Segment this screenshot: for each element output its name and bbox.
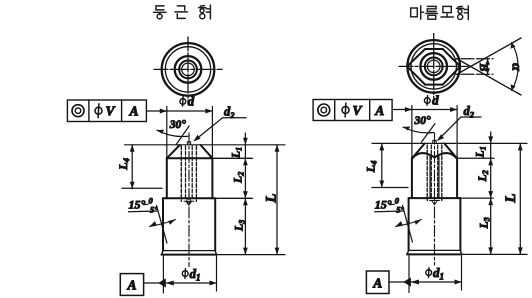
top view round pin: pin circle d <box>165 47 210 92</box>
top edge line right (with extensions) <box>372 142 527 144</box>
thread bottom cone right <box>430 201 440 205</box>
svg-text:30°: 30° <box>414 115 432 127</box>
svg-text:A: A <box>126 278 136 293</box>
phi-d dimension line left <box>160 110 213 112</box>
svg-text:A: A <box>372 276 382 291</box>
svg-text:15°: 15° <box>375 198 392 212</box>
15deg underline left <box>129 210 159 213</box>
leader from frame left <box>146 110 166 112</box>
L4 dimension left <box>131 145 133 189</box>
bottom edge line left (with extension) <box>162 254 217 256</box>
15deg angle arc arrows left <box>150 220 176 227</box>
center line right front view <box>434 133 436 265</box>
svg-text:L2: L2 <box>477 170 490 182</box>
top view round pin: body circle d1 <box>162 43 215 96</box>
step line right <box>409 197 493 199</box>
L4 dimension right <box>381 143 383 187</box>
svg-text:A: A <box>128 104 138 119</box>
top view diamond pin: thread inner circle <box>427 60 440 73</box>
concentricity frame left <box>67 100 146 122</box>
label phi-d1 right <box>426 268 432 278</box>
bottom chamfer line left <box>163 250 215 252</box>
top view diamond pin: body circle d1 <box>407 40 460 93</box>
syllable GEUN <box>175 6 187 19</box>
d2 underline left <box>223 117 247 119</box>
center line left front view <box>188 133 190 267</box>
chamfer extension slant right <box>421 124 435 142</box>
top view round pin: center lines <box>154 37 222 103</box>
phi-d dimension line right <box>405 109 458 111</box>
chain dimension line L1 L2 L3 left <box>244 133 246 255</box>
B extension line lower <box>461 73 493 75</box>
L4 lower extension line left <box>122 187 162 189</box>
B extension line upper <box>461 58 493 60</box>
svg-text:L3: L3 <box>479 217 492 229</box>
chain dimension line L1 L2 L3 right <box>490 132 492 254</box>
top view round pin: top face circle <box>175 56 202 83</box>
leader from frame right <box>392 109 412 111</box>
pin top face and chamfer right <box>413 144 457 158</box>
phi-d1 extension lines right <box>409 256 462 293</box>
svg-text:B: B <box>477 62 491 71</box>
svg-text:L4: L4 <box>364 161 379 174</box>
B dimension line with arrows <box>487 59 489 75</box>
thread bottom cone left <box>184 201 194 205</box>
cylinder sides right <box>412 158 457 198</box>
cylinder body shoulder heavy part <box>167 157 213 159</box>
d2 leader left <box>195 118 223 141</box>
thread hole hidden lines left <box>181 146 196 201</box>
d2 underline right <box>461 116 481 118</box>
shoulder extension line right <box>457 157 494 159</box>
syllable MO <box>441 6 453 17</box>
concentricity frame right <box>313 100 392 121</box>
chamfer extension slant left <box>176 126 189 145</box>
body sides right <box>409 198 461 250</box>
svg-text:L1: L1 <box>231 147 244 159</box>
svg-text:L2: L2 <box>233 172 246 184</box>
top view round pin: thread hole circle <box>179 61 197 79</box>
body sides left <box>163 198 215 250</box>
angle alpha construction line lower <box>457 59 522 96</box>
svg-text:L1: L1 <box>475 146 488 158</box>
datum triangle right <box>403 277 411 286</box>
15deg slant leader left <box>157 206 167 244</box>
top view round pin: thread inner circle <box>182 63 195 76</box>
title round type (Korean: dung-geun-hyeong) <box>154 5 211 19</box>
svg-text:L: L <box>263 194 279 204</box>
pin top face and chamfer left <box>167 145 213 158</box>
phi-d1 dimension line right <box>389 281 462 283</box>
syllable REUM <box>426 6 438 19</box>
svg-text:d: d <box>432 93 439 108</box>
center drill notch right <box>433 140 436 143</box>
angle alpha arc <box>512 43 519 91</box>
top view diamond pin: diamond ridge hexagon <box>407 49 460 85</box>
svg-text:d1: d1 <box>433 265 444 282</box>
15deg angle arc arrows right <box>396 220 422 227</box>
label phiV right <box>342 103 349 117</box>
ridge edges right <box>430 156 439 198</box>
svg-text:30°: 30° <box>169 119 187 131</box>
top view diamond pin: pin circle d <box>411 44 456 89</box>
svg-text:V: V <box>352 103 362 118</box>
svg-text:L4: L4 <box>116 158 131 171</box>
d2 leader right <box>438 117 461 140</box>
top edge line left (with extensions) <box>125 144 286 146</box>
svg-text:d: d <box>188 94 195 109</box>
phi-d extension lines left <box>167 107 213 159</box>
bottom chamfer line right <box>409 249 461 251</box>
svg-text:d1: d1 <box>190 266 201 283</box>
label phi-d right <box>424 96 430 106</box>
datum A box left <box>120 274 143 296</box>
top view diamond pin: center lines <box>399 34 468 100</box>
phi-d1 extension lines left <box>163 256 216 293</box>
svg-text:15°: 15° <box>129 198 146 212</box>
syllable HYEONG2 <box>457 6 469 20</box>
bottom edge line right (with extension) <box>407 253 462 255</box>
svg-text:α: α <box>509 63 524 71</box>
shoulder line left <box>167 157 253 159</box>
step line left <box>163 197 253 199</box>
bottom flare edges right <box>407 250 462 254</box>
30deg arc left <box>157 130 188 136</box>
L4 lower extension line right <box>372 187 408 189</box>
15deg underline right <box>375 210 404 213</box>
thread hole hidden lines right <box>427 145 442 201</box>
phi-d extension lines right <box>412 106 457 158</box>
label phi-d1 left <box>182 269 188 279</box>
label phiV left <box>95 104 102 118</box>
angle alpha construction line upper <box>457 38 522 75</box>
center drill notch left <box>187 142 190 145</box>
syllable DUNG <box>154 6 167 19</box>
overall L dimension right <box>519 143 521 254</box>
svg-text:L3: L3 <box>234 220 247 232</box>
svg-text:A: A <box>374 103 384 118</box>
30deg arc right <box>403 127 434 133</box>
phi-d1 dimension line left <box>144 282 217 284</box>
top view diamond pin: top face circle <box>420 53 447 80</box>
syllable MA <box>411 6 424 19</box>
overall L dimension left <box>276 145 278 255</box>
diamond relief arcs right <box>413 153 457 158</box>
cylinder sides left <box>167 158 213 198</box>
bottom flare edges left <box>162 251 217 255</box>
svg-text:L: L <box>503 194 519 204</box>
top view diamond pin: thread hole circle <box>425 58 443 76</box>
title diamond type (Korean: ma-reum-mo-hyeong) <box>411 6 469 20</box>
syllable HYEONG <box>199 5 211 19</box>
label phi-d left <box>180 97 186 107</box>
svg-text:V: V <box>105 104 115 119</box>
datum triangle left <box>158 278 166 287</box>
datum A box right <box>366 271 389 294</box>
15deg slant leader right <box>403 206 413 243</box>
